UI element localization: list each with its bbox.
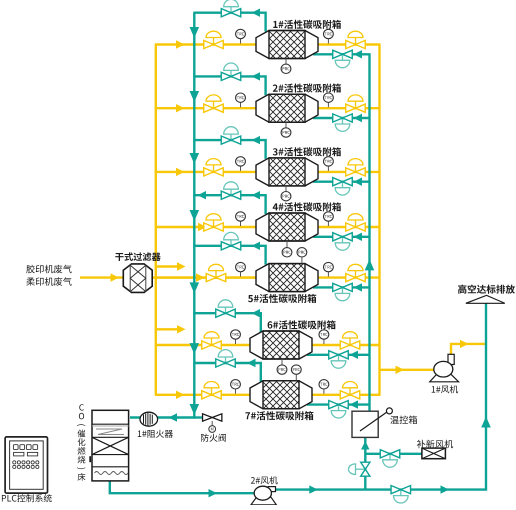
- dry filter: [123, 264, 152, 293]
- bed divider 3: [92, 454, 129, 456]
- bed divider 1: [92, 423, 129, 425]
- instrument PRC box 6: [281, 359, 283, 365]
- bed left tick: [89, 456, 91, 462]
- instrument PRC box 2: [285, 122, 287, 128]
- wire: adsorber 4 inlet line: [155, 226, 257, 228]
- stack cap: [466, 295, 505, 303]
- flow arrow desorb air into 4: [354, 233, 363, 241]
- valve: adsorber 2 inlet valve: [213, 101, 215, 108]
- instrument TRC outlet 1: [327, 39, 329, 44]
- adsorber box 3#: [256, 158, 318, 186]
- instrument TRC outlet 2: [327, 102, 329, 107]
- trunk down arrow (desorption): [190, 91, 200, 102]
- wire: adsorber 2 desorb outlet line: [193, 76, 265, 95]
- flow arrow stub above inlet 6: [155, 328, 177, 330]
- wire: yellow line to fan 1: [379, 369, 437, 371]
- label stack discharge: [458, 285, 515, 294]
- flow arrow on inlet line 4: [198, 223, 207, 231]
- catalytic bed body: [92, 410, 129, 481]
- flow arrow desorb air into 6: [350, 351, 359, 359]
- wire: adsorber 7 desorb outlet line: [193, 363, 260, 382]
- bed divider 2: [92, 436, 129, 438]
- label adsorber 6: [268, 320, 336, 329]
- trunk down arrow (desorption): [190, 153, 200, 164]
- valve: adsorber 2 desorb outlet valve: [230, 70, 232, 76]
- PLC control cabinet: [5, 437, 47, 493]
- instrument PRC box 7: [295, 374, 297, 380]
- wire: temp-control box bottom feed: [364, 437, 366, 489]
- valve: adsorber 4 desorb air valve: [342, 237, 344, 243]
- instrument TRC inlet 3: [240, 166, 242, 171]
- flow arrow desorb 2: [252, 72, 261, 80]
- valve: adsorber 7 desorb outlet valve: [225, 357, 227, 363]
- instrument TRC outlet 3: [327, 166, 329, 171]
- wire: raw gas feed line: [80, 276, 124, 278]
- valve: adsorber 5 inlet valve: [215, 271, 217, 278]
- wire: fresh air branch: [365, 453, 422, 455]
- label adsorber 2: [273, 84, 341, 93]
- flow arrow to fan 1: [396, 366, 405, 374]
- valve: recirculation vertical valve: [356, 468, 366, 470]
- instrument TRC inlet 1: [240, 39, 242, 44]
- label raw gas 2: [26, 277, 71, 286]
- label PLC: [2, 494, 52, 502]
- flow arrow on inlet line 7: [176, 391, 185, 399]
- wire: left yellow supply trunk: [155, 45, 157, 395]
- wire: adsorber 6 desorb outlet line: [193, 313, 260, 332]
- fan 2# symbol: [251, 497, 277, 505]
- flow arrow raw gas: [111, 273, 120, 281]
- label fresh air fan: [417, 440, 453, 449]
- wire: adsorber 1 desorb air inlet line: [313, 53, 371, 55]
- valve: adsorber 6 desorb air valve: [338, 355, 340, 361]
- instrument PRC box 4: [286, 241, 288, 248]
- instrument PRC box 1: [285, 59, 287, 65]
- flow arrow desorb 5: [252, 242, 261, 250]
- instrument TRC outlet 5: [327, 272, 329, 277]
- wire: dry filter outlet line: [151, 276, 257, 278]
- trunk down arrow (desorption): [190, 282, 200, 293]
- flow arrow on inlet line 2: [176, 104, 185, 112]
- flow arrow on inlet line 3: [176, 168, 185, 176]
- wire: combustion bed outlet bottom: [110, 480, 260, 493]
- wire: adsorber 1 desorb outlet line: [193, 13, 265, 32]
- valve: adsorber 1 desorb outlet valve: [230, 7, 232, 13]
- wire: adsorber 2 outlet line: [318, 107, 381, 109]
- valve: bottom line valve: [400, 490, 402, 496]
- wire: adsorber 4 outlet line: [318, 226, 381, 228]
- wire: adsorber 4 desorb outlet line: [193, 195, 265, 214]
- wire: adsorber 2 inlet line: [155, 107, 257, 109]
- bed divider 4: [92, 466, 129, 468]
- wire: adsorber 3 desorb air inlet line: [313, 180, 371, 182]
- flow arrow bottom line 2: [309, 485, 318, 493]
- flow arrow stub above inlet 5: [155, 265, 177, 267]
- valve: fresh air valve: [389, 454, 391, 460]
- valve: adsorber 4 desorb outlet valve: [230, 189, 232, 195]
- label dry filter: [115, 252, 160, 261]
- label temp control box: [390, 416, 417, 425]
- instrument PRC box 5: [301, 257, 303, 264]
- label raw gas 1: [26, 265, 71, 274]
- instrument TRC inlet 5: [240, 272, 242, 277]
- valve: adsorber 1 inlet valve: [213, 38, 215, 45]
- flow arrow into temp-control box: [361, 441, 369, 450]
- wire: adsorber 5 desorb air inlet line: [313, 286, 371, 288]
- wire: adsorber 7 outlet line: [312, 394, 381, 396]
- label fan 1: [432, 385, 458, 393]
- instrument TRC inlet 6: [235, 339, 237, 344]
- bed wavy line: [95, 472, 129, 475]
- label flame arrester: [138, 430, 173, 438]
- wire: adsorber 6 desorb air inlet line: [307, 354, 371, 356]
- wire: adsorber 7 inlet line: [155, 394, 251, 396]
- wire: adsorber 1 outlet line: [318, 43, 381, 45]
- wire: right teal hot-air trunk: [368, 54, 370, 412]
- valve: adsorber 7 desorb air valve: [338, 405, 340, 411]
- wire: fan 1 discharge up: [451, 344, 487, 356]
- label adsorber 7: [245, 411, 313, 420]
- flow arrow desorb 6: [252, 309, 261, 317]
- instrument TRC inlet 4: [240, 221, 242, 226]
- flow arrow fan1 discharge: [460, 340, 469, 348]
- valve: adsorber 6 outlet valve: [349, 338, 351, 345]
- instrument TRC outlet 7: [323, 389, 325, 394]
- flow arrow up to stack: [481, 417, 491, 428]
- adsorber box 4#: [256, 213, 318, 241]
- instrument PRC box 3: [285, 186, 287, 192]
- flow arrow on inlet line 1: [176, 40, 185, 48]
- flow arrow desorb air into 5: [354, 283, 363, 291]
- label adsorber 3: [273, 147, 341, 156]
- wire: fire damper stub: [194, 416, 203, 418]
- flow arrow desorb air into 7: [350, 400, 359, 408]
- valve: adsorber 4 outlet valve: [355, 220, 357, 227]
- valve: adsorber 6 inlet valve: [211, 338, 213, 345]
- adsorber box 2#: [256, 94, 318, 122]
- trunk down arrow (desorption): [190, 343, 200, 354]
- wire: adsorber 6 outlet line: [312, 344, 381, 346]
- wire: adsorber 3 inlet line: [155, 171, 257, 173]
- valve: adsorber 3 desorb outlet valve: [230, 134, 232, 140]
- wire: adsorber 3 desorb outlet line: [193, 140, 265, 159]
- label fan 2: [251, 476, 278, 484]
- flow arrow desorb air into 3: [354, 178, 363, 186]
- temp control box: [352, 411, 378, 437]
- bed catalyst X: [92, 437, 129, 454]
- valve: adsorber 4 inlet valve: [213, 220, 215, 227]
- valve: adsorber 3 inlet valve: [213, 165, 215, 172]
- wire: adsorber 2 desorb air inlet line: [313, 117, 371, 119]
- fan 1# symbol: [430, 373, 459, 382]
- flow arrow into flame arrester: [169, 413, 178, 421]
- flow arrow desorb 4: [252, 191, 261, 199]
- flow arrow on inlet line 5: [196, 273, 205, 281]
- flow arrow desorb 4 near trunk: [198, 191, 207, 199]
- wire: adsorber 3 outlet line: [318, 171, 381, 173]
- valve: adsorber 5 desorb outlet valve: [230, 240, 232, 246]
- wire: adsorber 5 inlet line: [155, 276, 257, 278]
- instrument TRC inlet 7: [235, 389, 237, 394]
- flame arrester 1#: [140, 412, 158, 426]
- instrument TRC outlet 4: [327, 221, 329, 226]
- bed heat exchanger zigzag: [96, 429, 124, 435]
- wire: fan2 discharge line: [273, 304, 486, 490]
- valve: adsorber 2 outlet valve: [355, 101, 357, 108]
- fire damper valve: [203, 414, 213, 421]
- valve: adsorber 3 desorb air valve: [342, 182, 344, 188]
- label adsorber 4: [273, 202, 341, 211]
- flow arrow bottom line 3: [441, 485, 450, 493]
- flow arrow bottom line 1: [209, 489, 218, 497]
- trunk down arrow (desorption): [190, 404, 200, 415]
- fire damper M circle: [211, 421, 213, 426]
- wire: adsorber 1 inlet line: [155, 43, 257, 45]
- valve: adsorber 7 outlet valve: [349, 388, 351, 395]
- flow arrow desorb air into 1: [354, 50, 363, 58]
- adsorber box 1#: [256, 31, 318, 59]
- adsorber box 5#: [256, 264, 318, 292]
- label fire damper: [201, 434, 226, 442]
- flow arrow desorb 3: [252, 136, 261, 144]
- wire: adsorber 4 desorb air inlet line: [313, 236, 371, 238]
- valve: adsorber 2 desorb air valve: [342, 118, 344, 124]
- trunk down arrow (desorption): [190, 210, 200, 221]
- valve: adsorber 5 outlet valve: [355, 271, 357, 278]
- wire: adsorber 6 inlet line: [155, 344, 251, 346]
- wire: right yellow collection trunk: [378, 45, 380, 395]
- flow arrow after filter: [196, 273, 205, 281]
- valve: adsorber 7 inlet valve: [211, 388, 213, 395]
- adsorber box 7#: [250, 381, 312, 409]
- label adsorber 1: [273, 20, 341, 29]
- wire: left teal desorption trunk: [130, 13, 194, 418]
- trunk up arrow (hot air): [365, 259, 375, 270]
- valve: adsorber 1 outlet valve: [355, 38, 357, 45]
- fresh air fan: [422, 448, 446, 459]
- adsorber box 6#: [250, 331, 312, 359]
- trunk down arrow (desorption): [190, 27, 200, 38]
- wire: adsorber 5 desorb outlet line: [193, 246, 265, 265]
- flow arrow desorb 1: [252, 9, 261, 17]
- flow arrow desorb 7: [247, 359, 256, 367]
- valve: adsorber 5 desorb air valve: [342, 287, 344, 293]
- label adsorber 5: [248, 294, 316, 303]
- wire: adsorber 7 desorb air inlet line: [307, 403, 371, 405]
- label catalytic bed (vertical): [77, 404, 86, 481]
- instrument TRC inlet 2: [240, 102, 242, 107]
- flow arrow desorb air into 2: [354, 114, 363, 122]
- wire: adsorber 5 outlet line: [318, 276, 381, 278]
- valve: adsorber 3 outlet valve: [355, 165, 357, 172]
- instrument TRC outlet 6: [323, 339, 325, 344]
- valve: adsorber 6 desorb outlet valve: [225, 307, 227, 313]
- valve: adsorber 1 desorb air valve: [342, 54, 344, 60]
